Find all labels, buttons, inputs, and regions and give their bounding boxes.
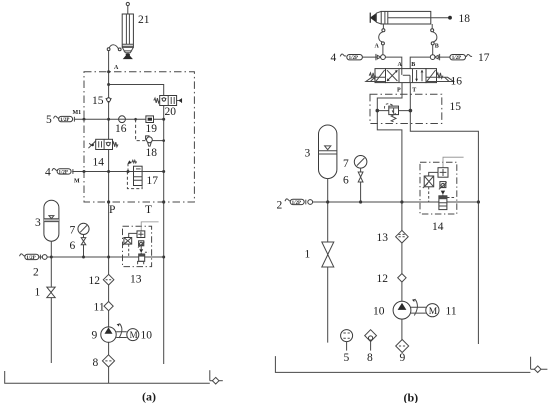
svg-text:T: T: [412, 88, 416, 94]
cylinder 21 body: [122, 14, 133, 47]
cylinder 21 rod: [127, 6, 129, 14]
valve 17 body: [134, 166, 143, 185]
svg-text:3: 3: [35, 217, 41, 229]
cylinder 21 piston: [122, 44, 133, 46]
hose A down wire: [382, 45, 384, 55]
coupling B tick: [439, 54, 441, 60]
motor 10: [127, 329, 139, 341]
svg-text:16: 16: [115, 123, 127, 135]
svg-text:21: 21: [138, 14, 150, 26]
wire 18 to T: [152, 140, 163, 142]
filter 9: [396, 340, 409, 353]
relief valve 15: [389, 106, 399, 115]
svg-text:(b): (b): [404, 391, 419, 403]
box 13 pilot line: [141, 222, 158, 231]
breather stub b: [531, 368, 548, 370]
svg-text:16: 16: [451, 76, 463, 88]
svg-text:15: 15: [450, 101, 462, 113]
valve 20 check cell: [162, 98, 167, 101]
box 13 solenoid square: [124, 238, 132, 245]
svg-text:4: 4: [45, 167, 51, 179]
svg-text:1/2P: 1/2P: [452, 56, 461, 61]
valve 16 solenoid right: [426, 69, 437, 83]
cylinder 18 piston: [385, 11, 388, 24]
check valve 12: [398, 274, 406, 282]
coupling 17 squiggle: [466, 54, 472, 56]
coupling 2 tick: [39, 255, 41, 260]
svg-text:T: T: [145, 204, 152, 216]
motor 11: [426, 304, 439, 317]
svg-text:6: 6: [343, 175, 349, 187]
svg-text:M: M: [74, 179, 80, 185]
hose B circle bottom: [431, 42, 434, 45]
svg-text:P: P: [397, 88, 401, 94]
wire inner horizontal to valve 20: [109, 85, 164, 96]
valve 16 spring right: [437, 73, 443, 78]
coupling B circle: [430, 55, 435, 60]
check valve 11: [104, 302, 113, 311]
svg-text:1/2P: 1/2P: [26, 256, 35, 261]
pump shaft: [411, 307, 426, 313]
svg-text:8: 8: [367, 352, 373, 364]
svg-text:A: A: [114, 65, 119, 71]
coupling 2 capsule: [25, 254, 39, 259]
hose A curve: [379, 32, 383, 42]
rotation arrow: [414, 299, 417, 316]
valve 16 cross cell: [387, 70, 397, 81]
wire line 4: [72, 171, 164, 173]
svg-text:12: 12: [377, 273, 389, 285]
unloader box 13: [123, 226, 152, 266]
relief valve pilot dashed: [384, 104, 392, 110]
breather 8: [365, 330, 377, 342]
box 14 solenoid square: [424, 176, 434, 187]
wire T path: [410, 83, 478, 344]
port line A: [382, 24, 384, 29]
coupling 4 squiggle: [52, 168, 58, 170]
cylinder 21 funnel: [122, 47, 133, 53]
breather stub: [210, 380, 223, 382]
svg-text:11: 11: [94, 302, 105, 314]
svg-text:7: 7: [70, 225, 76, 237]
svg-text:2: 2: [277, 200, 283, 212]
accumulator 3: [319, 125, 337, 179]
valve 14 spring: [113, 142, 118, 147]
cylinder 21 base: [124, 57, 132, 59]
valve 16 closed cell: [402, 69, 410, 83]
cylinder 18 rod end dot: [448, 16, 452, 20]
filter 13: [396, 230, 409, 243]
valve 16 wing left: [366, 77, 386, 81]
wire line 4: [363, 57, 402, 69]
wire line 2: [39, 256, 164, 258]
box 13 bottom valve: [139, 254, 145, 261]
hose B down wire: [432, 45, 434, 55]
shutoff valve 1: [47, 287, 55, 298]
box 13 check square: [137, 231, 145, 238]
svg-text:4: 4: [331, 52, 337, 64]
box 14 ball valve: [440, 182, 446, 188]
coupling 2 circle: [42, 255, 47, 260]
pump shaft: [116, 332, 127, 338]
svg-text:9: 9: [92, 330, 98, 342]
pump 10: [393, 301, 411, 319]
box 14 dashed pilot: [428, 187, 430, 202]
svg-text:1: 1: [305, 249, 311, 261]
svg-text:14: 14: [93, 157, 105, 169]
coupling 4 capsule: [347, 55, 363, 60]
valve 14 check cell: [106, 142, 111, 146]
breather diamond b: [534, 366, 541, 373]
svg-text:8: 8: [93, 357, 99, 369]
svg-text:3: 3: [305, 148, 311, 160]
box 15 dash-dot: [370, 94, 442, 123]
svg-text:(a): (a): [142, 390, 156, 403]
coupling 4 capsule: [57, 169, 71, 174]
valve 16 spring left: [369, 73, 375, 78]
valve 16 wing right: [426, 77, 454, 81]
valve 20 plug: [177, 98, 182, 103]
valve 14 solenoid: [88, 141, 95, 148]
svg-text:A: A: [398, 62, 403, 68]
breather diamond: [212, 377, 219, 384]
box 14 check square: [438, 168, 448, 178]
svg-text:7: 7: [343, 158, 349, 170]
coupling 2 tick: [305, 200, 307, 205]
valve 6: [358, 172, 363, 182]
box 13 ball valve: [139, 241, 144, 246]
svg-text:2: 2: [33, 267, 39, 279]
box 14 filter stack: [439, 196, 447, 210]
wire main line b: [318, 201, 478, 203]
accumulator stem: [327, 179, 329, 202]
valve 16 body: [386, 69, 427, 83]
svg-text:11: 11: [446, 306, 457, 318]
cylinder 21 port circle: [118, 48, 121, 51]
svg-text:18: 18: [459, 13, 471, 25]
filter 12: [103, 274, 114, 285]
coupling 2 squiggle: [20, 254, 26, 256]
coupling 17 capsule: [450, 55, 466, 60]
coupling A circle: [381, 55, 386, 60]
box 13 dashed pilot: [128, 244, 130, 257]
valve 19 body: [146, 116, 154, 123]
svg-text:1/2P: 1/2P: [349, 56, 358, 61]
svg-text:M: M: [130, 330, 138, 340]
tank line b: [275, 356, 530, 372]
gauge 7: [78, 223, 89, 234]
svg-text:M: M: [429, 307, 438, 317]
cylinder 18 rod: [388, 17, 449, 19]
port line B: [431, 24, 433, 29]
wire P path: [377, 83, 402, 202]
valve 16 parallel cell: [417, 70, 422, 81]
tank right tick: [530, 357, 532, 370]
svg-text:P: P: [109, 204, 115, 216]
gauge stem: [360, 168, 362, 202]
pilot dashed line to 18: [136, 119, 147, 140]
coupling 5 squiggle: [54, 116, 60, 118]
shutoff valve 1: [322, 242, 334, 267]
coupling 2 squiggle: [285, 199, 291, 201]
svg-text:6: 6: [70, 240, 76, 252]
check valve 15: [106, 98, 112, 103]
cylinder 21 nozzle dot: [126, 53, 130, 56]
svg-text:14: 14: [432, 221, 444, 233]
svg-text:M1: M1: [73, 110, 82, 116]
cylinder 18 body: [381, 11, 431, 24]
box 14 dashed right: [447, 197, 455, 199]
box 14 pilot line: [443, 157, 464, 168]
svg-text:5: 5: [344, 352, 350, 364]
coupling 5 capsule: [59, 116, 73, 121]
orifice 16: [119, 116, 126, 123]
valve 14 left cell bars: [99, 141, 102, 147]
relief valve spring: [391, 114, 396, 122]
pressure switch 18: [146, 136, 149, 139]
wire P main vertical: [108, 51, 110, 384]
gauge 7: [354, 156, 367, 169]
valve 16 solenoid left: [375, 69, 386, 83]
tank line a: [5, 371, 210, 383]
wire line 17: [410, 57, 450, 69]
coupling A tick: [375, 54, 377, 60]
accumulator stem: [50, 241, 52, 257]
node junctions a: [50, 70, 165, 258]
svg-text:17: 17: [147, 175, 159, 187]
gauge 7 stem: [83, 234, 85, 257]
svg-text:20: 20: [165, 106, 177, 118]
cylinder 18 mount trapezoid: [376, 11, 381, 24]
pump 9: [101, 327, 116, 342]
hose B circle top: [431, 29, 434, 32]
svg-text:9: 9: [400, 352, 406, 364]
wire line 5: [74, 118, 164, 120]
coupling 5 tick: [73, 117, 75, 122]
valve 17 pilot dashed: [127, 164, 129, 172]
cylinder 21 rod top circle: [126, 2, 129, 5]
filter 8: [102, 355, 114, 367]
svg-text:13: 13: [377, 232, 389, 244]
box 14 corner wire: [429, 172, 438, 176]
valve 20 open cell bars: [171, 97, 174, 104]
box 13 arrow: [139, 249, 143, 253]
svg-text:1/2P: 1/2P: [60, 118, 69, 123]
wire pump column b: [401, 202, 403, 340]
node junctions b: [326, 109, 480, 204]
coupling 4 squiggle: [340, 54, 346, 56]
shutoff valve 1 column: [327, 202, 329, 343]
hose curve to node A: [109, 45, 118, 49]
coupling 2 capsule: [290, 199, 304, 204]
valve 20 body: [160, 96, 177, 106]
svg-text:A: A: [375, 44, 380, 50]
svg-text:1/2P: 1/2P: [292, 201, 301, 206]
relief valve wires: [377, 110, 410, 112]
valve 14 body: [96, 139, 113, 149]
valve 17 dashed surround: [127, 172, 142, 189]
svg-text:17: 17: [478, 52, 490, 64]
svg-text:12: 12: [89, 275, 101, 287]
unloader box 14: [420, 162, 457, 214]
svg-text:10: 10: [373, 306, 385, 318]
hose B curve: [433, 32, 437, 42]
box 13 corner wire: [129, 233, 137, 237]
coupling 2 circle: [308, 200, 313, 205]
rotation arrow: [119, 324, 122, 339]
svg-text:B: B: [411, 62, 415, 68]
accumulator 3: [44, 200, 59, 241]
hose end circle: [107, 48, 110, 51]
svg-text:18: 18: [146, 147, 158, 159]
svg-text:5: 5: [46, 114, 52, 126]
enclosure a dash-dot box: [84, 72, 194, 202]
level gauge 5: [341, 330, 353, 342]
svg-text:19: 19: [146, 123, 158, 135]
svg-text:15: 15: [92, 95, 104, 107]
shutoff valve 1 column: [50, 257, 52, 363]
cylinder 18 mount wedge: [369, 13, 371, 23]
box 14 arrow: [441, 191, 445, 195]
svg-text:10: 10: [141, 330, 153, 342]
coupling A triangle: [377, 55, 380, 59]
cylinder 21 piston rod (inner): [126, 14, 129, 44]
svg-text:13: 13: [130, 274, 142, 286]
hose A circle top: [382, 29, 385, 32]
wire T vertical: [163, 106, 165, 365]
coupling B triangle: [435, 55, 438, 59]
hose A circle bottom: [381, 42, 384, 45]
valve 6: [81, 238, 86, 245]
svg-text:1: 1: [35, 287, 41, 299]
tank right tick: [209, 370, 211, 381]
svg-text:B: B: [435, 44, 439, 50]
valve 20 spring: [154, 98, 160, 103]
coupling 4 tick: [72, 169, 74, 174]
svg-text:1/2P: 1/2P: [59, 170, 68, 175]
